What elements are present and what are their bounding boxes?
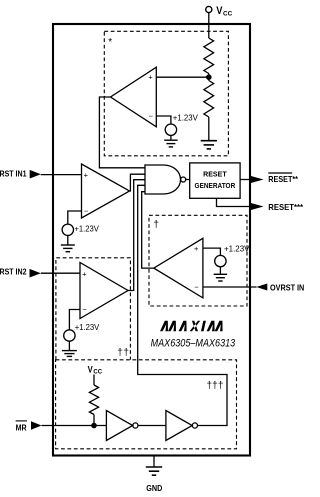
B2 bubble: [192, 423, 197, 428]
svg-text:RST IN1: RST IN1: [0, 168, 27, 178]
wire RST IN1 to comparator: [41, 174, 82, 176]
wire V1 to ground: [170, 135, 172, 140]
OVRST IN arrow: [256, 284, 267, 291]
U3 minus label: [82, 305, 87, 314]
op-amp U1 (VCC comparator): [111, 67, 157, 127]
reference V1 +1.23V: [165, 124, 176, 135]
svg-text:+1.23V: +1.23V: [74, 225, 99, 234]
dagger mark: [153, 220, 159, 231]
svg-text:V: V: [88, 364, 93, 375]
wire V2 to ground: [67, 236, 69, 246]
dashed box (VCC monitor section): [104, 31, 228, 156]
ground (V1): [164, 140, 177, 147]
wire reset generator to RESET**: [240, 179, 251, 181]
asterisk mark: [108, 37, 112, 48]
wire R2 to ground: [208, 117, 210, 141]
svg-text:†††: †††: [207, 380, 224, 391]
wire U1 minus input to reference: [156, 116, 171, 124]
NAND gate: [145, 165, 181, 194]
op-amp U3 (RST IN2 comparator): [80, 263, 128, 319]
svg-text:+: +: [82, 269, 87, 278]
dashed box (OVRST section): [149, 215, 247, 306]
VCC top label: [216, 6, 232, 18]
NAND output bubble: [181, 177, 186, 182]
svg-text:+: +: [148, 73, 153, 82]
U4 minus label: [194, 283, 199, 292]
wire VCC to resistor R3: [93, 375, 95, 386]
wire NAND to reset generator: [186, 179, 190, 181]
RESET GENERATOR box: [190, 163, 240, 198]
RESET GENERATOR text: [195, 170, 236, 191]
svg-text:GENERATOR: GENERATOR: [195, 181, 236, 190]
svg-text:+1.23V: +1.23V: [224, 244, 250, 253]
wire MR to inverter B1: [42, 425, 107, 427]
RESET** output arrow: [251, 176, 264, 183]
svg-text:V: V: [216, 6, 222, 18]
svg-text:MAX6305–MAX6313: MAX6305–MAX6313: [151, 337, 236, 349]
VCC pullup label: [88, 364, 103, 376]
reference V3 +1.23V: [64, 330, 75, 341]
RST IN1 label: [0, 168, 27, 178]
resistor R3 (MR pullup): [89, 385, 98, 415]
V1 value label: [173, 114, 199, 123]
wire V3 to ground: [68, 341, 70, 350]
RESET overline: [268, 172, 292, 174]
op-amp U2 (RST IN1 comparator): [82, 164, 130, 218]
dagger-dagger mark: [117, 348, 129, 359]
svg-text:+1.23V: +1.23V: [173, 114, 199, 123]
triple dagger mark: [207, 380, 224, 391]
svg-text:RESET**: RESET**: [268, 174, 298, 184]
reference V4 +1.23V: [215, 255, 226, 266]
svg-text:RESET***: RESET***: [268, 202, 303, 212]
svg-text:RESET: RESET: [203, 170, 227, 179]
MAXIM logo: [160, 321, 223, 331]
svg-text:−: −: [149, 112, 154, 121]
svg-text:CC: CC: [93, 369, 102, 375]
svg-text:OVRST IN: OVRST IN: [270, 283, 304, 293]
RST IN1 input arrow: [30, 170, 41, 179]
reference V2 +1.23V: [62, 224, 73, 235]
dashed box (RST IN2 section): [56, 258, 130, 360]
RESET*** output arrow: [251, 203, 264, 210]
U1 plus label: [148, 73, 153, 82]
wire U2 output to NAND input 2: [129, 174, 145, 191]
MR input arrow: [31, 421, 42, 430]
svg-text:††: ††: [117, 348, 129, 359]
wire U4 output to NAND input 5: [142, 192, 154, 268]
ground (V4): [214, 274, 227, 281]
op-amp U4 (OVRST comparator): [154, 238, 203, 298]
ground (divider): [201, 141, 217, 149]
RESET** label: [268, 174, 298, 184]
V4 value label: [224, 244, 250, 253]
wire VCC to divider: [208, 13, 210, 38]
outer IC boundary box: [53, 24, 250, 456]
inverter B1: [106, 411, 132, 441]
V2 value label: [74, 225, 99, 234]
wire U4 plus to reference: [203, 248, 221, 255]
wire R1 to node: [208, 74, 210, 81]
wire V4 to ground: [219, 267, 221, 275]
MR label: [16, 422, 27, 432]
svg-text:†: †: [153, 220, 159, 231]
wire U1 output to NAND input 1: [99, 97, 145, 168]
V3 value label: [75, 323, 100, 332]
U2 plus label: [84, 170, 89, 179]
B1 bubble: [133, 423, 138, 428]
RST IN2 input arrow: [30, 269, 41, 278]
U4 plus label: [194, 244, 199, 253]
wire reset generator to RESET***: [217, 198, 252, 206]
ground (V3): [62, 351, 77, 357]
RESET*** label: [268, 202, 303, 212]
svg-text:+: +: [194, 244, 199, 253]
wire U3 minus to reference: [69, 310, 80, 330]
U2 minus label: [84, 207, 89, 216]
MR overline: [16, 420, 27, 422]
inverter B2: [166, 411, 192, 441]
resistor R1 (upper divider): [204, 38, 214, 74]
junction dot (MR): [91, 423, 97, 429]
svg-text:GND: GND: [146, 483, 162, 493]
node junction: [206, 74, 212, 80]
wire U4 minus to OVRST IN: [203, 286, 257, 288]
wire U1 plus input to node: [156, 76, 209, 78]
wire B2 output to NAND input 4: [138, 185, 227, 425]
svg-text:MR: MR: [16, 422, 27, 432]
OVRST IN label: [270, 283, 304, 293]
svg-text:−: −: [82, 305, 87, 314]
wire R3 to MR rail: [93, 415, 95, 426]
GND label: [146, 483, 162, 493]
ground (V2): [61, 245, 75, 252]
resistor R2 (lower divider): [204, 81, 214, 118]
wire B1 to B2: [138, 425, 166, 427]
wire RST IN2 to comparator: [41, 272, 80, 274]
svg-text:*: *: [108, 37, 112, 48]
dashed box (MR section): [56, 360, 237, 449]
ground (GND pin): [153, 456, 155, 468]
svg-text:−: −: [84, 207, 89, 216]
svg-text:−: −: [194, 283, 199, 292]
part number MAX6305-MAX6313: [151, 337, 236, 349]
VCC terminal: [206, 6, 212, 12]
RST IN2 label: [0, 267, 27, 277]
wire U3 output to NAND input 3: [128, 180, 145, 291]
U1 minus label: [149, 112, 154, 121]
svg-text:RST IN2: RST IN2: [0, 267, 27, 277]
svg-text:+: +: [84, 170, 89, 179]
wire U2 minus to reference: [68, 211, 82, 224]
svg-text:+1.23V: +1.23V: [75, 323, 100, 332]
U3 plus label: [82, 269, 87, 278]
svg-text:CC: CC: [223, 10, 233, 17]
